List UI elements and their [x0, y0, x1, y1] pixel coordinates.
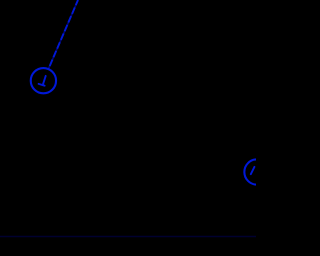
depth contour line (faint, bottom)	[0, 236, 256, 238]
wire: dashed route leg from top edge to anchorage A1	[48, 0, 78, 69]
wire: route leg underlay (soft fill of dash gaps)	[48, 0, 78, 69]
anchorage circle A1	[31, 68, 56, 93]
anchor glyph A1 stem	[43, 76, 46, 85]
anchor glyph A2 stem	[251, 167, 255, 174]
anchorage circle A2 (right edge, partially off-canvas)	[244, 159, 269, 184]
anchor glyph A1 crossbar	[39, 84, 45, 86]
